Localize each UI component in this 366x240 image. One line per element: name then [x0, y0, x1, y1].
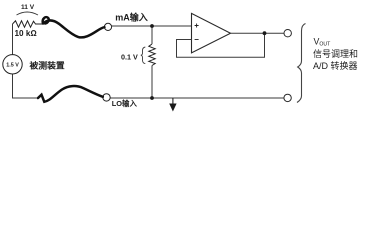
svg-text:11 V: 11 V [21, 4, 35, 11]
svg-text:10 kΩ: 10 kΩ [15, 29, 37, 38]
svg-text:0.1 V: 0.1 V [121, 52, 138, 61]
svg-text:1.5 V: 1.5 V [6, 62, 19, 68]
svg-text:被测装置: 被测装置 [29, 60, 65, 71]
svg-text:信号调理和: 信号调理和 [313, 48, 358, 59]
svg-text:mA输入: mA输入 [115, 12, 148, 23]
svg-text:LO输入: LO输入 [112, 99, 138, 108]
svg-text:A/D 转换器: A/D 转换器 [313, 60, 358, 71]
